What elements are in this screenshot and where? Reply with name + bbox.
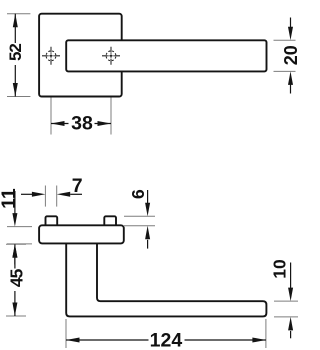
- dimension 38 extension line right (from right screw hole): [110, 65, 112, 135]
- dimension 11 tick top: [7, 226, 32, 228]
- dimension 124 line and arrows: [66, 338, 266, 343]
- dimension 11 arrows (outside): [12, 191, 17, 265]
- dimension 6 arrows (outside): [145, 190, 150, 249]
- dimension 6 tick top: [124, 215, 155, 217]
- dimension 38 label: [71, 112, 93, 134]
- dimension 10 tick top: [274, 300, 298, 302]
- dimension 124 label: [150, 329, 183, 350]
- dimension 52 label: [6, 44, 25, 61]
- svg-text:124: 124: [150, 329, 183, 350]
- dimension 10 label: [270, 259, 290, 279]
- dimension 38 extension line left (from left screw hole): [50, 65, 52, 135]
- dimension 7 extension line right: [56, 186, 58, 207]
- dimension 52 tick top: [7, 13, 30, 15]
- svg-text:10: 10: [270, 259, 290, 279]
- dimension 20 label: [281, 45, 301, 65]
- dimension 7 extension line left: [44, 186, 46, 207]
- dimension 45 tick bottom: [6, 315, 26, 317]
- dimension 45 label: [6, 268, 26, 287]
- dimension 11 label: [0, 188, 20, 209]
- svg-text:6: 6: [128, 189, 148, 199]
- dimension 52 line and arrows: [13, 14, 18, 97]
- svg-text:38: 38: [71, 112, 93, 134]
- dimension 124 extension line right: [265, 319, 267, 348]
- svg-text:52: 52: [6, 44, 25, 61]
- dimension 124 extension line left: [65, 319, 67, 348]
- dimension 7 arrows (outside): [21, 192, 82, 197]
- left screw lug (side view): [46, 216, 58, 227]
- dimension 52 tick bottom: [7, 96, 30, 98]
- svg-text:45: 45: [6, 268, 26, 287]
- dimension 45 line and arrows: [12, 244, 17, 316]
- dimension 10 arrows (outside): [288, 263, 293, 339]
- dimension 6 tick bottom: [124, 225, 155, 227]
- lever handle bar (front view, 20 high): [66, 40, 266, 71]
- dimension 10 tick bottom: [274, 316, 298, 318]
- right screw lug (side view): [104, 216, 116, 227]
- dimension 38 line and arrows: [51, 121, 111, 126]
- dimension 11 tick bottom: [7, 243, 32, 245]
- dimension 20 tick bottom: [274, 70, 296, 72]
- dimension 20 tick top: [274, 39, 296, 41]
- dimension 20 arrows (outside): [288, 18, 293, 94]
- rose plate (side view, 11 thick): [39, 225, 124, 243]
- svg-text:7: 7: [72, 175, 83, 197]
- right screw hole crosshair: [102, 47, 120, 65]
- dimension 45 tick top: [6, 243, 26, 245]
- left screw hole crosshair: [42, 47, 60, 65]
- square rose plate (front view, 52x52): [39, 14, 122, 97]
- dimension 6 label: [128, 189, 148, 199]
- svg-text:11: 11: [0, 188, 20, 209]
- svg-text:20: 20: [281, 45, 299, 65]
- dimension 7 label: [72, 175, 83, 197]
- handle neck and lever arm (side view L-shape): [66, 243, 266, 316]
